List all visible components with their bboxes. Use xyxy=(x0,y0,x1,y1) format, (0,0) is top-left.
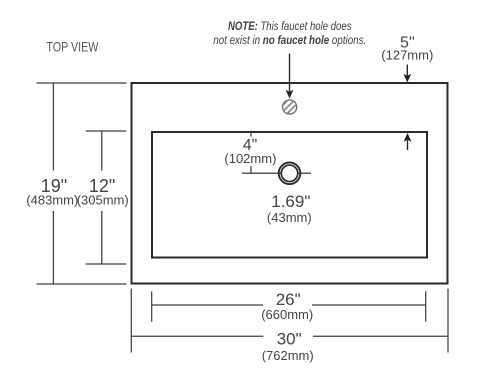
dimension 30 inch line left xyxy=(131,335,263,337)
svg-text:(102mm): (102mm) xyxy=(224,151,276,166)
svg-text:not exist in no faucet hole op: not exist in no faucet hole options. xyxy=(213,35,366,47)
svg-text:(43mm): (43mm) xyxy=(267,210,312,225)
outer sink rectangle xyxy=(132,83,448,284)
svg-text:(305mm): (305mm) xyxy=(77,192,129,207)
svg-text:TOP VIEW: TOP VIEW xyxy=(46,39,99,55)
dimension 26 inch left cap xyxy=(151,291,153,321)
svg-text:(660mm): (660mm) xyxy=(261,307,313,322)
drain centerline xyxy=(242,172,311,174)
extension line 12 inch top cap xyxy=(86,130,127,132)
extension line 19 inch top xyxy=(37,82,127,84)
extension line 30 inch right xyxy=(447,289,449,353)
faucet hole circle xyxy=(283,100,297,114)
arrow up to basin edge shaft xyxy=(407,140,409,150)
inner basin rectangle xyxy=(152,132,427,258)
extension line 30 inch left xyxy=(130,289,132,353)
svg-text:(762mm): (762mm) xyxy=(262,348,314,363)
dimension 26 inch right cap xyxy=(425,291,427,321)
svg-text:1.69": 1.69" xyxy=(271,192,310,211)
svg-text:(483mm): (483mm) xyxy=(26,192,78,207)
dimension 19 inch line lower xyxy=(52,211,54,284)
arrow 5 inch shaft xyxy=(406,65,408,77)
dimension 12 inch line lower xyxy=(101,211,103,264)
dimension 26 inch line left xyxy=(152,304,263,306)
dimension 19 inch line upper xyxy=(52,83,54,171)
drain outer circle xyxy=(279,163,301,185)
faucet hole hatching xyxy=(279,98,300,119)
svg-text:30": 30" xyxy=(277,329,302,348)
svg-text:NOTE: This faucet hole does: NOTE: This faucet hole does xyxy=(228,21,352,33)
dimension 4 inch bottom tick xyxy=(250,166,252,173)
note arrowhead xyxy=(286,90,294,99)
dimension 26 inch line right xyxy=(312,304,426,306)
svg-text:(127mm): (127mm) xyxy=(381,48,433,63)
extension line 19 inch bottom xyxy=(37,283,127,285)
arrow 5 inch head xyxy=(403,74,411,83)
note arrow shaft xyxy=(289,54,291,92)
extension line 12 inch bottom cap xyxy=(86,263,127,265)
dimension 4 inch top tick xyxy=(250,131,252,137)
drain inner circle xyxy=(281,165,298,182)
dimension 30 inch line right xyxy=(313,335,448,337)
dimension 12 inch line upper xyxy=(101,131,103,171)
arrow up to basin edge head xyxy=(404,133,412,142)
